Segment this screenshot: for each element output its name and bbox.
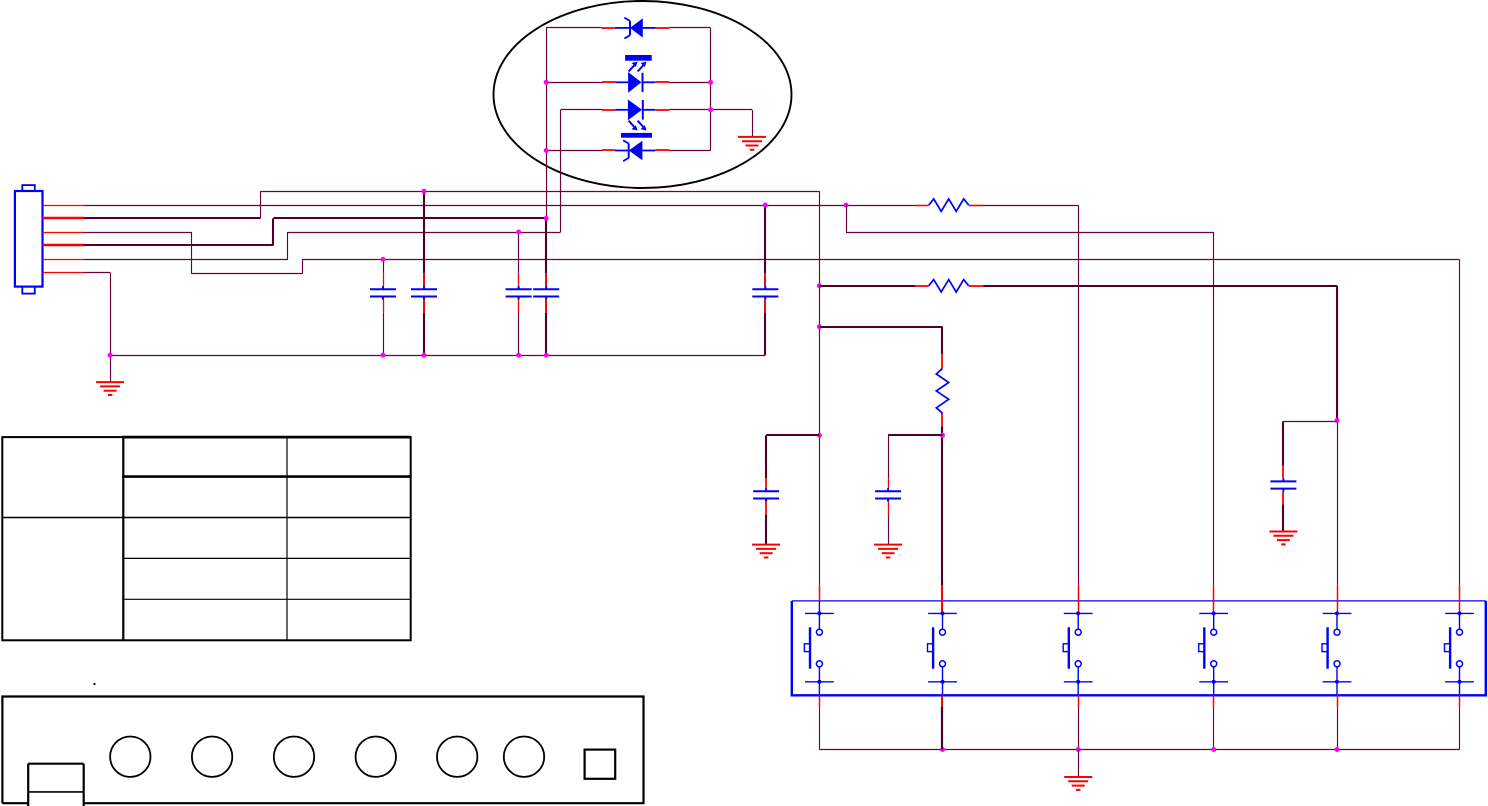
wire vertical right (x=710) bbox=[710, 28, 712, 151]
switch S2 top pin stub bbox=[941, 585, 943, 613]
pin 5 of J1 bbox=[43, 259, 84, 261]
panel hole circle 2 bbox=[192, 737, 232, 777]
panel square cutout bbox=[585, 750, 616, 779]
resistor R2 leads bbox=[915, 285, 929, 287]
wire stub to bottom ground bbox=[1078, 750, 1080, 778]
wire C8 branch horizontal bbox=[1283, 421, 1337, 423]
wire D1 right bbox=[669, 27, 710, 29]
switch S5 bbox=[1322, 611, 1351, 695]
wire down to R3 bbox=[941, 327, 943, 354]
pin stub D3 right bbox=[655, 109, 669, 111]
switch S1 bottom pin stub bbox=[819, 695, 821, 707]
capacitor C7 pin stubs bbox=[765, 478, 767, 488]
pin 1 of J1 bbox=[43, 205, 84, 207]
switch S3 bbox=[1063, 611, 1092, 695]
node D3 right junction bbox=[708, 107, 713, 112]
wire C8 upper lead bbox=[1282, 421, 1284, 465]
node R3 input junction bbox=[817, 324, 822, 329]
wire branch horizontal y=232 bbox=[846, 232, 1214, 234]
pin stub D3 left bbox=[602, 109, 615, 111]
wire C7 lower lead bbox=[765, 515, 767, 545]
pin 6 of J1 bbox=[43, 272, 84, 274]
wire R2 output bbox=[984, 285, 1338, 287]
wire jog up pin4 at x=273 bbox=[272, 218, 274, 245]
wire C6 lower lead bbox=[888, 515, 890, 545]
ground (below C7) bbox=[752, 545, 780, 558]
switch S1 top pin stub bbox=[819, 585, 821, 601]
wire vertical x=1213 down to switch S4 bbox=[1213, 232, 1215, 585]
pin stub D4 right bbox=[655, 149, 669, 151]
wire C6 upper lead bbox=[888, 435, 890, 478]
wire vertical x=1459 down to switch S6 bbox=[1459, 259, 1461, 585]
LED D2 (pointing right, emitter bar above) bbox=[616, 55, 656, 93]
diode D1 (zener, pointing left) bbox=[615, 18, 656, 39]
ground (bottom, below switch box) bbox=[1064, 777, 1092, 790]
node D4 left junction bbox=[544, 148, 549, 153]
wire pin2 horizontal bbox=[84, 217, 261, 219]
connector J1 bbox=[15, 185, 43, 294]
capacitor at x=518.6 bbox=[506, 286, 532, 300]
wire D3 right to ground bbox=[669, 109, 752, 111]
capacitor at x=383.0 bbox=[370, 286, 396, 300]
switch S2 bottom pin stub bbox=[941, 695, 943, 707]
wire D3 left bbox=[561, 109, 602, 111]
wire branch down at x=846 bbox=[846, 205, 848, 232]
capacitor at x=424.0 bbox=[411, 286, 437, 300]
wire D2 right bbox=[669, 82, 711, 84]
resistor R2 bbox=[929, 280, 969, 292]
ground (inside ellipse) bbox=[738, 137, 766, 150]
pin 3 of J1 bbox=[43, 232, 84, 234]
wire net ROW3 horizontal y=259 bbox=[302, 259, 1459, 261]
wire jog up pin2 at x=260 bbox=[260, 191, 262, 218]
pin 4 of J1 bbox=[43, 244, 84, 246]
ground (below C6) bbox=[874, 545, 902, 558]
node D2 left junction bbox=[544, 80, 549, 85]
capacitor C8 bbox=[1270, 478, 1296, 492]
panel hole circle 5 bbox=[437, 737, 477, 777]
node bottom bus junction x=1337.0 bbox=[1335, 747, 1340, 752]
node C3 bottom junction bbox=[516, 353, 521, 358]
wire jog up pin5 at x=288 bbox=[287, 232, 289, 259]
switch S5 top pin stub bbox=[1337, 585, 1339, 613]
wire pin6 down to ground bus bbox=[110, 273, 112, 356]
resistor R3 bbox=[936, 368, 948, 413]
wire below switch S3 bbox=[1078, 707, 1080, 750]
wire C7 branch horizontal bbox=[766, 434, 819, 436]
capacitor at x=546.2 bbox=[533, 286, 559, 300]
pin stub D1 right bbox=[656, 27, 670, 29]
wire below switch S6 bbox=[1459, 707, 1461, 750]
wire R2 input bbox=[819, 285, 915, 287]
switch S4 bottom pin stub bbox=[1213, 695, 1215, 707]
wire net ROW5 horizontal y=232 bbox=[288, 232, 561, 234]
wire D4 left bbox=[546, 150, 602, 152]
capacitor at x=765.3 bbox=[752, 286, 778, 300]
wire jog up pin3 at x=302 bbox=[302, 259, 304, 274]
resistor R1 bbox=[929, 199, 969, 211]
node C4 bottom junction bbox=[544, 353, 549, 358]
front panel outline bbox=[2, 697, 643, 806]
wire C4 upper lead bbox=[545, 218, 547, 273]
wire net ROW1 horizontal y=205 bbox=[84, 205, 1079, 207]
panel hole circle 6 bbox=[504, 737, 544, 777]
wire vertical left (x=546) bbox=[546, 28, 548, 219]
wire C8 lower lead bbox=[1282, 504, 1284, 531]
wire D2 left bbox=[546, 82, 602, 84]
diode D4 (zener, pointing left) bbox=[615, 140, 656, 161]
node R3 output junction bbox=[940, 433, 945, 438]
node ROW1 branch junction bbox=[844, 203, 849, 208]
switch S1 bbox=[804, 601, 833, 695]
capacitor C6 pin stubs bbox=[888, 478, 890, 488]
switch S6 bottom pin stub bbox=[1459, 695, 1461, 707]
wire vertical x=1078 down to switch S3 bbox=[1078, 205, 1080, 585]
resistor R1 leads bbox=[915, 205, 929, 207]
node D2 right junction bbox=[708, 80, 713, 85]
ground (below connector) bbox=[96, 382, 124, 395]
wire ground bus y=355 bbox=[110, 355, 765, 357]
wire pin6 horizontal bbox=[84, 272, 111, 274]
wire D1 left bbox=[546, 27, 601, 29]
wire below switch S2 bbox=[941, 707, 943, 750]
LED cluster ellipse bbox=[494, 1, 792, 188]
node R2 input junction bbox=[817, 283, 822, 288]
wire C1 upper lead bbox=[383, 259, 385, 273]
pin stub D2 right bbox=[655, 81, 669, 83]
wire C5 upper lead bbox=[764, 205, 766, 273]
node C2 top junction bbox=[422, 189, 427, 194]
wire down x=1337 to C8 node bbox=[1336, 286, 1338, 421]
switch S4 top pin stub bbox=[1213, 585, 1215, 613]
wire bottom bus y=748 bbox=[819, 749, 1459, 751]
wire jog down pin3 at x=192 bbox=[191, 232, 193, 274]
wire C6 branch horizontal bbox=[888, 434, 942, 436]
switch S4 bbox=[1199, 611, 1228, 695]
node ground-bus left junction bbox=[108, 353, 113, 358]
wire below switch S1 bbox=[819, 707, 821, 750]
wire down x=1337 to switch S5 bbox=[1337, 420, 1339, 585]
node C4 top junction bbox=[544, 216, 549, 221]
stray dot mark bbox=[93, 683, 95, 685]
revision table bbox=[2, 437, 410, 640]
pin stub D2 left bbox=[602, 81, 616, 83]
pin stub D4 left bbox=[602, 149, 615, 151]
switch S6 bbox=[1445, 611, 1474, 695]
pin 2 of J1 bbox=[43, 217, 84, 219]
node bottom bus junction x=1078.2 bbox=[1076, 747, 1081, 752]
switch S3 bottom pin stub bbox=[1078, 695, 1080, 707]
wire C7 upper lead bbox=[765, 435, 767, 478]
wire vertical x=819 down to switch S1 bbox=[819, 191, 821, 585]
switch S5 bottom pin stub bbox=[1337, 695, 1339, 707]
node C5 top junction bbox=[763, 203, 768, 208]
ground (below C8) bbox=[1269, 532, 1297, 545]
wire pin5 horizontal bbox=[84, 259, 288, 261]
pin stub D1 left bbox=[601, 27, 614, 29]
wire pin3 bypass horizontal y=274 bbox=[192, 273, 302, 275]
node C1 bottom junction bbox=[381, 353, 386, 358]
node C1 top junction bbox=[381, 257, 386, 262]
wire pin3 horizontal bbox=[84, 232, 192, 234]
capacitor C6 bbox=[875, 488, 901, 502]
wire below switch S4 bbox=[1213, 707, 1215, 750]
wire R3 output down to switch S2 bbox=[941, 427, 943, 586]
node C7 branch junction bbox=[817, 433, 822, 438]
switch S2 bbox=[928, 611, 957, 695]
panel hole circle 3 bbox=[274, 737, 314, 777]
node bottom bus junction x=1213.7 bbox=[1211, 747, 1216, 752]
wire stub to ground symbol bbox=[110, 355, 112, 382]
wire C2 upper lead bbox=[423, 191, 425, 273]
resistor R3 pin stubs bbox=[941, 354, 943, 369]
wire down to ellipse ground bbox=[752, 110, 754, 137]
wire net ROW2 horizontal y=191 bbox=[260, 191, 819, 193]
LED D3 (pointing right, emitter bar below) bbox=[615, 100, 655, 138]
wire C3 upper lead bbox=[518, 232, 520, 273]
wire net ROW4 horizontal y=219 bbox=[273, 217, 546, 219]
capacitor C8 pin stubs bbox=[1282, 466, 1284, 478]
wire R3 input bbox=[819, 326, 942, 328]
panel hole circle 4 bbox=[356, 737, 396, 777]
node C3 top junction bbox=[516, 230, 521, 235]
node bottom bus junction x=942.5 bbox=[940, 747, 945, 752]
wire D4 right bbox=[669, 150, 711, 152]
switch S3 top pin stub bbox=[1078, 585, 1080, 613]
node C8 branch junction bbox=[1335, 418, 1340, 423]
wire below switch S5 bbox=[1337, 707, 1339, 750]
capacitor C7 bbox=[753, 488, 779, 502]
switch S6 top pin stub bbox=[1459, 585, 1461, 613]
panel hole circle 1 bbox=[110, 737, 150, 777]
wire vertical (x=560) to net bbox=[560, 110, 562, 232]
switch box outline bbox=[791, 601, 1487, 695]
wire pin4 horizontal bbox=[84, 244, 274, 246]
wire below switch S2 (over junction) bbox=[941, 707, 943, 750]
node C2 bottom junction bbox=[422, 353, 427, 358]
